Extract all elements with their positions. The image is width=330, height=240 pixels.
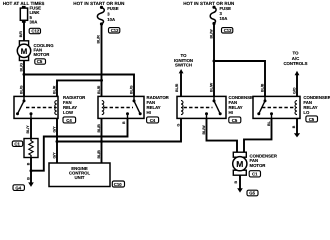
relay K3 dashed link xyxy=(184,107,213,109)
resistor (fan resistor) xyxy=(24,139,38,158)
relay K4 switch xyxy=(257,96,273,118)
relay K3 CONDENSER FAN RELAY HI box xyxy=(177,96,226,118)
wire fuse3a down, crossing bus1, to bus2 node xyxy=(101,24,103,80)
svg-text:C4: C4 xyxy=(66,118,72,123)
relay K2 coil xyxy=(102,101,104,115)
connector C5 (cooling fan motor) xyxy=(35,59,46,64)
connector C10 (ECU) xyxy=(112,181,124,187)
connector C12 (fuse link) xyxy=(29,28,40,33)
relay K4 dashed link xyxy=(262,107,294,109)
svg-text:C12: C12 xyxy=(111,28,119,33)
relay K3 switch xyxy=(205,96,222,118)
svg-text:C10: C10 xyxy=(114,182,122,187)
relay K1 label RADIATOR FAN RELAY LOW xyxy=(63,95,86,115)
relay K3 coil xyxy=(181,101,183,115)
wire relay K3 switch to condenser motor, label BL/W xyxy=(207,118,238,152)
relay K1 switch xyxy=(16,96,33,118)
ground G4 xyxy=(28,171,34,187)
wire fuse3b down to junction xyxy=(213,24,215,97)
svg-text:LO: LO xyxy=(303,110,310,115)
svg-text:MOTOR: MOTOR xyxy=(34,52,51,57)
node W2 left xyxy=(56,140,59,143)
node bus2 junction xyxy=(100,79,103,82)
svg-text:BL/R: BL/R xyxy=(97,35,101,44)
svg-text:B: B xyxy=(234,181,238,184)
node W2 right xyxy=(100,140,103,143)
arrow to A/C controls xyxy=(295,71,300,97)
connector C4 (relay K1) xyxy=(63,117,76,123)
wire condenser motor to ground, label B xyxy=(239,176,241,189)
ground G5 xyxy=(237,188,243,192)
svg-text:B: B xyxy=(122,121,126,124)
relay K2 dashed link xyxy=(104,107,133,109)
relay K4 label CONDENSER FAN RELAY LO xyxy=(303,95,330,115)
svg-text:B: B xyxy=(26,162,30,165)
node ground junction xyxy=(30,169,33,172)
svg-text:BL/G: BL/G xyxy=(129,85,133,94)
svg-text:M: M xyxy=(21,47,28,56)
wire relay K4 switch to condenser motor, label BL xyxy=(244,118,272,152)
relay K3 label CONDENSER FAN RELAY HI xyxy=(229,95,257,115)
node condenser feed junction xyxy=(213,60,216,63)
wire resistor to ground node, label B xyxy=(30,158,32,171)
svg-text:BL/W: BL/W xyxy=(209,29,213,39)
connector C5 (relay K4) xyxy=(306,116,318,122)
connector C12 (left fuse 3) xyxy=(109,28,120,33)
svg-text:BL/R: BL/R xyxy=(97,85,101,94)
svg-text:TO: TO xyxy=(293,51,300,56)
svg-text:BL: BL xyxy=(267,120,271,126)
connector C1 (condenser fan motor) xyxy=(249,171,260,177)
connector C5 (relay K3) xyxy=(229,117,241,123)
cooling fan motor label xyxy=(34,43,55,57)
svg-text:C4: C4 xyxy=(150,118,156,123)
svg-text:G4: G4 xyxy=(15,185,21,190)
svg-text:BL/Y: BL/Y xyxy=(26,125,30,134)
wire bus2 to relay1 coil xyxy=(57,80,102,96)
svg-text:BL/R: BL/R xyxy=(175,83,179,92)
TO A/C CONTROLS label xyxy=(283,51,307,67)
fuse 3 10A (right) xyxy=(210,6,216,26)
svg-text:BL/G: BL/G xyxy=(19,85,23,94)
svg-text:B/R: B/R xyxy=(19,31,23,38)
svg-text:C5: C5 xyxy=(309,117,315,122)
wire fuse link to cooling fan motor xyxy=(23,23,25,41)
wire junction to relay K4 switch xyxy=(214,61,265,96)
relay K4 CONDENSER FAN RELAY LO box xyxy=(253,96,300,118)
svg-text:CONTROLS: CONTROLS xyxy=(283,61,307,66)
wire motor to bus1 xyxy=(23,61,25,96)
wire relay K1 switch to resistor, label BL/Y xyxy=(30,118,32,138)
arrow to ignition switch xyxy=(179,69,184,96)
relay K2 label RADIATOR FAN RELAY HI xyxy=(147,95,170,115)
svg-text:C5: C5 xyxy=(232,118,238,123)
svg-text:BL/B: BL/B xyxy=(260,83,264,92)
svg-text:G/O: G/O xyxy=(292,87,296,94)
svg-text:HI: HI xyxy=(229,110,233,115)
svg-text:UNIT: UNIT xyxy=(74,175,84,180)
TO IGNITION SWITCH label xyxy=(174,53,193,68)
fuse 3 value label (right) xyxy=(220,6,232,21)
fuse link 5 30A xyxy=(20,6,27,23)
svg-text:G5: G5 xyxy=(249,191,255,196)
connector G5 label xyxy=(247,190,258,196)
condenser fan motor label xyxy=(250,153,278,168)
wire bus1 horizontal xyxy=(24,75,134,97)
wire bus2 node to relay2 coil xyxy=(101,80,103,96)
svg-text:BL/W: BL/W xyxy=(202,125,206,135)
svg-text:B: B xyxy=(26,177,30,180)
connector G4 label xyxy=(13,185,24,191)
svg-text:B: B xyxy=(292,125,296,128)
svg-text:C5: C5 xyxy=(37,59,43,64)
svg-text:LOW: LOW xyxy=(63,110,74,115)
svg-text:BL/W: BL/W xyxy=(209,82,213,92)
svg-text:BL/B: BL/B xyxy=(97,150,101,159)
relay K1 dashed link xyxy=(26,107,55,109)
svg-text:A/C: A/C xyxy=(292,56,299,61)
svg-text:HI: HI xyxy=(147,110,151,115)
engine control unit xyxy=(49,163,110,187)
relay K1 RADIATOR FAN RELAY LOW box xyxy=(14,96,58,118)
relay K4 coil xyxy=(295,101,297,115)
wire relay K4 coil to ground xyxy=(294,118,300,137)
svg-text:G: G xyxy=(176,124,180,127)
wire W2 bus to relay K3 coil xyxy=(57,118,181,141)
svg-text:M: M xyxy=(236,159,243,169)
svg-text:BL/G: BL/G xyxy=(19,63,23,72)
svg-text:C12: C12 xyxy=(224,28,232,33)
fuse 3 value label xyxy=(107,6,119,22)
svg-text:C12: C12 xyxy=(31,29,39,34)
svg-text:G/Y: G/Y xyxy=(52,152,56,159)
connector C1 (resistor) xyxy=(12,141,22,146)
fuse 3 10A (left) xyxy=(97,6,104,26)
wire relay K1 coil to ECU (G/Y) xyxy=(56,118,58,163)
node bus1 junction at motor wire xyxy=(23,73,26,76)
svg-text:G/Y: G/Y xyxy=(52,126,56,133)
connector C4 (relay K2) xyxy=(147,117,159,123)
relay K1 coil xyxy=(55,101,57,115)
svg-text:BL/B: BL/B xyxy=(97,124,101,133)
condenser fan motor M2 xyxy=(233,152,247,175)
fuse link value label FUSE LINK 5 30A xyxy=(30,6,42,25)
svg-text:SWITCH: SWITCH xyxy=(175,63,192,68)
svg-text:C1: C1 xyxy=(14,141,20,146)
svg-text:10A: 10A xyxy=(107,17,115,22)
svg-text:FUSE: FUSE xyxy=(107,6,119,11)
svg-text:10A: 10A xyxy=(220,16,228,21)
wire relay K2 coil to ECU (BL/B) xyxy=(101,118,103,163)
svg-text:C1: C1 xyxy=(252,172,258,177)
relay K2 RADIATOR FAN RELAY HI box xyxy=(98,96,144,118)
svg-text:BL/R: BL/R xyxy=(52,85,56,94)
svg-text:MOTOR: MOTOR xyxy=(250,163,267,168)
wire relay K2 switch to ground node (W1), label B xyxy=(31,118,128,170)
svg-text:30A: 30A xyxy=(30,20,38,25)
connector C12 (right fuse 3) xyxy=(222,28,233,33)
relay K2 switch xyxy=(126,96,142,118)
cooling fan motor M1 xyxy=(17,41,30,61)
